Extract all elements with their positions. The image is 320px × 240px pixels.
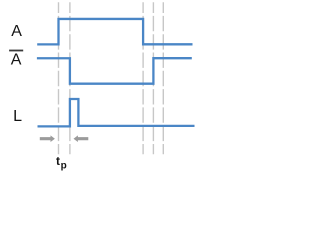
waveform L (with glitch pulse) xyxy=(38,99,195,126)
timing marker line t2 (A-bar falling edge) xyxy=(69,2,71,154)
waveform A-bar xyxy=(37,58,192,83)
arrow right (tp left marker) xyxy=(40,135,55,142)
timing marker line t1 (A rising edge) xyxy=(58,2,60,154)
svg-text:p: p xyxy=(61,160,67,171)
svg-text:t: t xyxy=(56,154,60,168)
timing marker line t3 (A falling edge) xyxy=(142,2,144,154)
svg-text:L: L xyxy=(13,108,22,125)
waveform A xyxy=(37,19,192,44)
arrow left (tp right marker) xyxy=(74,135,89,142)
svg-text:A: A xyxy=(11,23,22,40)
timing marker line t5 xyxy=(162,2,164,154)
label A-bar overline xyxy=(9,50,23,52)
svg-text:A: A xyxy=(11,52,22,69)
timing marker line t4 (A-bar rising edge) xyxy=(152,2,154,154)
